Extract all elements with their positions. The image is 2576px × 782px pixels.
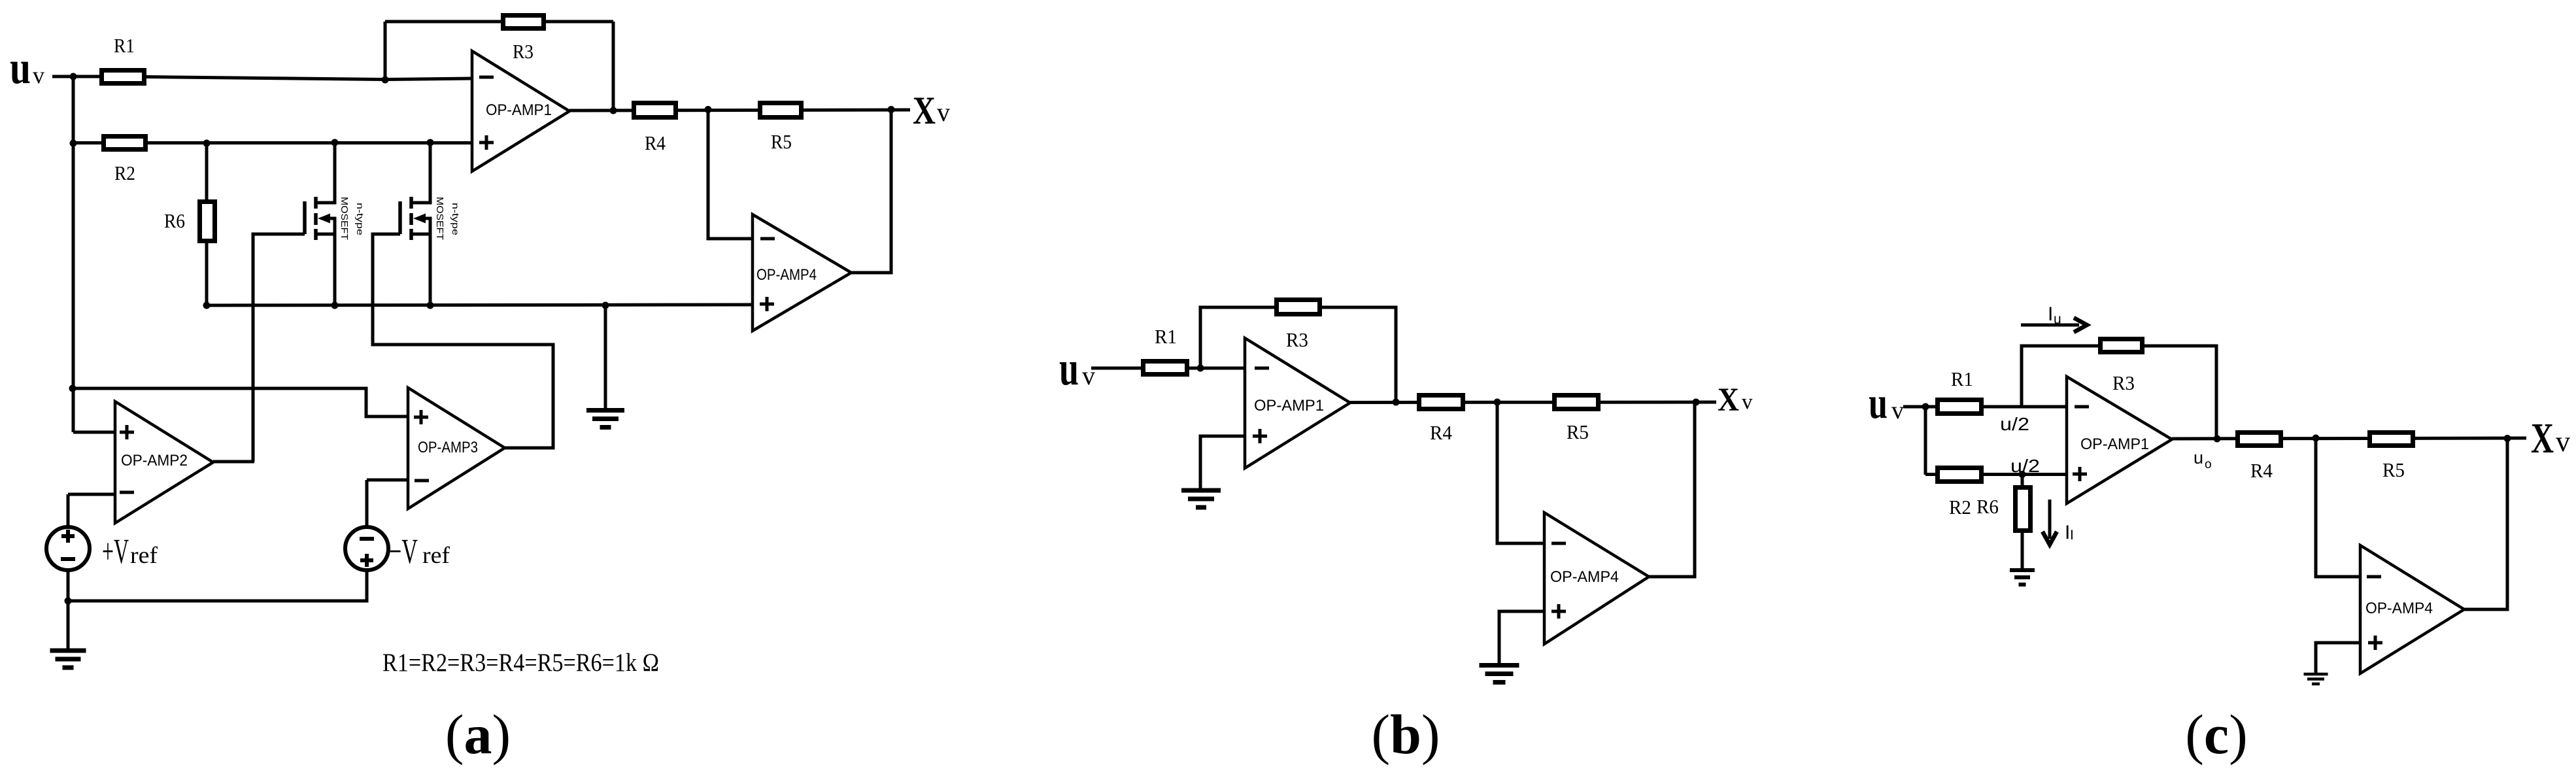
-Vref internal plus (a) <box>360 554 373 567</box>
svg-text:v: v <box>1082 361 1095 390</box>
junction u_v bus to comparators (a) <box>69 385 76 392</box>
svg-text:R2: R2 <box>114 161 135 184</box>
svg-text:R5: R5 <box>2382 458 2405 481</box>
wire R2 row to op-amp1 non-inverting input (c) <box>1925 473 2067 476</box>
junction X_v output node (a) <box>888 106 895 113</box>
svg-text:R6: R6 <box>1976 495 1999 518</box>
svg-text:(c): (c) <box>2185 703 2247 766</box>
resistor R5 (a) <box>760 103 802 118</box>
op-amp2 non-inverting pin + (a) <box>120 425 134 439</box>
op-amp2 inverting pin - (a) <box>120 491 134 494</box>
junction X_v node (b) <box>1693 399 1700 406</box>
transistor Q2 MOSFET n-type (a) <box>400 197 426 240</box>
junction u_v node (a) <box>70 73 77 80</box>
-Vref internal minus (a) <box>360 537 374 541</box>
resistor R5 (b) <box>1555 396 1599 409</box>
resistor R1 (a) <box>102 71 144 84</box>
label I_u (c) <box>2048 303 2061 327</box>
wire u_v bus to comparator inputs run (a) <box>73 388 408 416</box>
ground symbol at bottom rail (a) <box>586 411 624 428</box>
wire op-amp4 inverting input from R4-R5 node (c) <box>2316 438 2360 577</box>
wire MOSFET1 gate lead from op-amp2 output (a) <box>253 234 305 462</box>
op-amp4 non-inverting pin + (b) <box>1551 604 1566 619</box>
svg-text:R1: R1 <box>1951 367 1973 390</box>
op-amp1 inverting pin - (c) <box>2075 405 2089 409</box>
ground symbol below op-amp4 (c) <box>2304 674 2328 684</box>
junction feedback tap on inverting line (a) <box>382 76 389 84</box>
resistor R5 (c) <box>2370 433 2413 446</box>
junction R1 feedback tap (b) <box>1197 365 1204 372</box>
op-amp1 inverting pin - (b) <box>1255 367 1269 370</box>
wire R1 output to op-amp1 inverting input (a) <box>385 78 472 80</box>
wire op-amp4 non-inverting input to ground (b) <box>1499 611 1544 664</box>
wire op-amp3 output (a) <box>505 447 555 450</box>
svg-text:X: X <box>2531 415 2554 462</box>
wire MOSFET1 drain lead (a) <box>316 143 337 203</box>
wire feedback down to op-amp1 output (a) <box>612 22 615 110</box>
wire feedback riser and top run through R3 (b) <box>1200 307 1396 402</box>
svg-text:v: v <box>1742 390 1753 414</box>
junction source ground link (a) <box>65 598 72 605</box>
resistor R4 (b) <box>1419 396 1463 409</box>
svg-text:(b): (b) <box>1371 703 1440 766</box>
resistor R3 feedback (a) <box>503 16 544 29</box>
op-amp4 inverting pin - (a) <box>760 237 775 241</box>
ground symbol below R6 (c) <box>2010 570 2035 585</box>
svg-text:u: u <box>1869 378 1888 428</box>
svg-text:R4: R4 <box>1430 421 1452 444</box>
svg-text:OP-AMP4: OP-AMP4 <box>2365 600 2433 617</box>
op-amp1 non-inverting pin + (b) <box>1253 429 1267 443</box>
ground symbol below op-amp1 (b) <box>1181 490 1221 507</box>
wire op-amp4 inverting input from R4/R5 node (a) <box>708 110 753 239</box>
resistor R3 feedback (c) <box>2101 339 2143 352</box>
node u_v input label (c) <box>1869 378 1904 428</box>
wire op-amp2 output (a) <box>213 460 254 464</box>
svg-text:ref: ref <box>422 542 450 568</box>
svg-text:OP-AMP3: OP-AMP3 <box>418 439 478 456</box>
junction R4-R5 node (c) <box>2313 435 2320 442</box>
wire op-amp4 output to X_v node (b) <box>1649 402 1695 577</box>
voltage source +Vref circle (a) <box>46 527 90 570</box>
junction u_v node (c) <box>1922 403 1929 411</box>
voltage source -Vref circle (a) <box>345 527 388 570</box>
wire op-amp4 inverting input from R4-R5 node (b) <box>1497 402 1544 543</box>
svg-text:v: v <box>1891 397 1904 424</box>
junction MOSFET1 drain at R2 row (a) <box>331 139 339 146</box>
svg-text:R1: R1 <box>114 34 135 57</box>
wire ground link between sources (a) <box>68 570 367 601</box>
op-amp OP-AMP1 triangle (a) <box>472 51 569 171</box>
resistor R2 (a) <box>104 137 146 150</box>
svg-text:X: X <box>1718 382 1739 418</box>
junction MOSFET2 source at rail (a) <box>427 302 434 309</box>
wire output row op-amp1 to X_v through R4 R5 (a) <box>569 110 910 110</box>
svg-text:v: v <box>33 62 44 88</box>
op-amp OP-AMP1 triangle (b) <box>1245 338 1350 468</box>
junction R2 row at u_v bus (a) <box>70 140 77 147</box>
wire u_v through R1 to op-amp1 inverting input (b) <box>1091 367 1245 370</box>
wire output row u_o through R4 R5 to X_v (c) <box>2172 438 2526 439</box>
op-amp OP-AMP4 triangle (a) <box>753 214 851 331</box>
ground symbol below op-amp4 (b) <box>1480 666 1519 683</box>
op-amp4 non-inverting pin + (c) <box>2368 636 2382 650</box>
svg-text:n-type: n-type <box>355 203 365 235</box>
op-amp1 inverting pin - (a) <box>479 76 494 79</box>
svg-text:ref: ref <box>130 542 158 568</box>
svg-text:u: u <box>10 42 31 93</box>
svg-text:I: I <box>2070 528 2074 543</box>
wire op-amp4 output to X_v node (c) <box>2464 438 2507 609</box>
wire MOSFET2 source lead to bottom rail (a) <box>411 218 432 305</box>
wire feedback top run through R3 (a) <box>385 20 613 24</box>
resistor R3 feedback (b) <box>1277 300 1320 314</box>
wire MOSFET1 source lead to bottom rail (a) <box>316 218 337 305</box>
ground symbol below +Vref (a) <box>50 651 86 668</box>
junction R4-R5 node (a) <box>705 106 712 113</box>
current arrow I_u (c) <box>2021 318 2087 332</box>
wire op-amp4 output to X_v node (a) <box>851 110 891 273</box>
svg-text:u/2: u/2 <box>2000 414 2029 434</box>
svg-text:OP-AMP1: OP-AMP1 <box>2080 435 2149 453</box>
label I_I (c) <box>2065 522 2074 543</box>
op-amp OP-AMP4 triangle (c) <box>2360 545 2464 673</box>
wire bottom rail to op-amp4 non-inverting input (a) <box>207 305 753 305</box>
svg-text:OP-AMP2: OP-AMP2 <box>121 452 188 469</box>
wire left vertical bus from u_v node down (a) <box>72 76 75 432</box>
op-amp OP-AMP3 triangle (a) <box>408 388 505 509</box>
wire R6 leads down to ground (c) <box>2021 475 2024 569</box>
svg-text:v: v <box>2556 426 2570 458</box>
wire R2 row from u_v bus to op-amp1 non-inverting input (a) <box>73 141 472 144</box>
junction MOSFET2 drain at R2 row (a) <box>427 139 434 146</box>
op-amp3 non-inverting pin + (a) <box>414 410 428 424</box>
wire R6 vertical leads (a) <box>205 143 209 305</box>
wire u_v bus down to R2 row (c) <box>1924 407 1927 475</box>
svg-text:OP-AMP4: OP-AMP4 <box>756 266 817 284</box>
wire MOSFET2 gate lead from op-amp3 output (a) <box>373 234 553 448</box>
svg-text:u: u <box>2194 448 2203 467</box>
svg-text:OP-AMP4: OP-AMP4 <box>1550 568 1619 586</box>
svg-text:R5: R5 <box>771 130 792 153</box>
wire feedback riser and run through R3 (c) <box>2022 346 2216 439</box>
svg-text:−V: −V <box>389 532 418 571</box>
wire feedback riser at node A (a) <box>384 22 387 80</box>
node X_v output label (a) <box>913 89 950 132</box>
node label u_o (c) <box>2194 448 2212 471</box>
wire u_v through R1 to op-amp1 inverting input (c) <box>1903 405 2067 409</box>
wire op-amp2 inverting input from +Vref (a) <box>68 494 115 527</box>
wire +Vref to ground (a) <box>67 570 70 649</box>
svg-text:OP-AMP1: OP-AMP1 <box>1254 397 1324 415</box>
current arrow I_I (c) <box>2042 500 2057 545</box>
svg-text:u: u <box>2054 312 2061 327</box>
node X_v output label (b) <box>1718 382 1753 418</box>
op-amp1 non-inverting pin + (a) <box>479 135 494 150</box>
svg-text:R4: R4 <box>2250 459 2273 482</box>
wire op-amp4 non-inverting input to ground (c) <box>2316 643 2360 673</box>
wire u_v lead to R1 row (a) <box>52 76 385 80</box>
junction R6 top (a) <box>203 140 211 147</box>
label +Vref (a) <box>102 532 158 571</box>
wire op-amp1 non-inverting input to ground (b) <box>1200 436 1245 489</box>
svg-text:R3: R3 <box>1286 328 1308 351</box>
+Vref internal plus (a) <box>61 530 75 543</box>
svg-text:MOSEFT: MOSEFT <box>434 197 445 240</box>
junction R4-R5 node (b) <box>1494 399 1501 406</box>
svg-text:u: u <box>1059 342 1079 396</box>
wire -Vref to op-amp3 inverting input (a) <box>367 480 408 527</box>
junction op-amp1 output node (b) <box>1393 399 1400 406</box>
node u_v input label (b) <box>1059 342 1095 396</box>
resistor R1 (b) <box>1144 362 1187 375</box>
wire MOSFET2 drain lead (a) <box>411 143 432 203</box>
svg-text:R1=R2=R3=R4=R5=R6=1k Ω: R1=R2=R3=R4=R5=R6=1k Ω <box>382 649 659 677</box>
+Vref internal minus (a) <box>61 557 75 561</box>
resistor R2 (c) <box>1938 468 1982 482</box>
svg-text:R1: R1 <box>1155 325 1177 348</box>
label -Vref (a) <box>389 532 450 571</box>
junction R2-R6 node at non-inverting input (c) <box>2019 471 2026 478</box>
svg-text:I: I <box>2048 303 2053 325</box>
resistor R4 (c) <box>2238 433 2281 446</box>
svg-text:MOSEFT: MOSEFT <box>339 197 350 240</box>
svg-text:+V: +V <box>102 532 129 571</box>
svg-text:R4: R4 <box>645 131 666 154</box>
label MOSEFT n-type Q1 (a) <box>339 197 365 240</box>
op-amp4 inverting pin - (c) <box>2367 575 2381 579</box>
op-amp4 inverting pin - (b) <box>1551 542 1566 545</box>
svg-text:R3: R3 <box>513 40 534 63</box>
node X_v output label (c) <box>2531 415 2570 462</box>
svg-text:X: X <box>913 89 936 132</box>
op-amp3 inverting pin - (a) <box>415 479 429 483</box>
wire output row through R4 R5 to X_v (b) <box>1350 401 1716 405</box>
svg-text:R2: R2 <box>1949 496 1971 518</box>
op-amp4 non-inverting pin + (a) <box>760 297 774 311</box>
wire op-amp2 non-inverting input (a) <box>73 431 115 434</box>
node u_v input label (panel a) <box>10 42 44 93</box>
op-amp1 non-inverting pin + (c) <box>2073 467 2087 481</box>
resistor R4 (a) <box>634 103 676 118</box>
transistor Q1 MOSFET n-type (a) <box>305 197 330 240</box>
svg-text:OP-AMP1: OP-AMP1 <box>486 101 552 119</box>
op-amp OP-AMP2 triangle (a) <box>115 401 213 523</box>
svg-text:(a): (a) <box>445 703 511 766</box>
svg-text:R6: R6 <box>164 209 185 232</box>
op-amp OP-AMP4 triangle (b) <box>1544 513 1649 644</box>
junction op-amp1 output node (a) <box>610 107 617 114</box>
junction ground tap on rail (a) <box>602 302 609 309</box>
wire ground stem near op-amp4 (a) <box>604 305 607 409</box>
junction op-amp1 output node u_o (c) <box>2214 435 2221 443</box>
junction R6 bottom at rail (a) <box>203 302 211 309</box>
label MOSEFT n-type Q2 (a) <box>434 197 461 240</box>
svg-text:R3: R3 <box>2112 371 2135 394</box>
resistor R1 (c) <box>1938 400 1982 414</box>
svg-text:n-type: n-type <box>450 203 461 235</box>
svg-text:R5: R5 <box>1567 420 1589 443</box>
resistor R6 (a) <box>200 202 215 241</box>
op-amp OP-AMP1 triangle (c) <box>2067 377 2172 503</box>
junction MOSFET1 source at rail (a) <box>331 302 339 309</box>
resistor R6 (c) <box>2016 488 2031 531</box>
svg-text:v: v <box>937 97 950 127</box>
junction X_v node (c) <box>2504 435 2511 442</box>
svg-text:o: o <box>2205 458 2212 471</box>
